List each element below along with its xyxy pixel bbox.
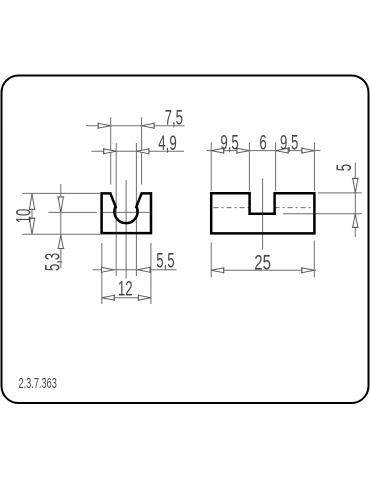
right view: hidden center line left segment: [214, 207, 250, 209]
left view: extension line 4.9 right: [135, 143, 137, 276]
svg-text:2.3.7.363: 2.3.7.363: [19, 375, 57, 392]
svg-text:6: 6: [259, 130, 266, 154]
svg-text:9,5: 9,5: [280, 130, 299, 154]
arrowhead 12 right (points right): [138, 295, 151, 300]
dimension line 10 (vertical): [31, 193, 33, 234]
arrowhead 10 top (points up): [29, 193, 34, 209]
arrowhead 5 top (points down): [353, 178, 358, 193]
arrowhead 4.9 right (points left): [136, 149, 149, 154]
left view part outline: [102, 193, 151, 233]
right view: hidden center line right segment: [275, 207, 314, 209]
right view: extension line 25 right: [313, 241, 315, 278]
dimension line 5.3 (vertical): [60, 184, 62, 268]
dimension line 5.5: [93, 269, 177, 271]
arrowhead 10 bottom (points down): [29, 218, 34, 234]
arrowhead 7.5 right (points left): [142, 123, 155, 128]
left view: horizontal centerline left segment: [48, 211, 97, 213]
dimension line 25: [211, 269, 316, 271]
arrowhead 5.5 left (points right): [102, 267, 115, 272]
right view: extension line notch right: [275, 142, 277, 190]
arrowhead 4.9 left (points right): [104, 149, 117, 154]
arrowhead 25 right (points right): [302, 268, 315, 273]
right view: extension line notch left: [248, 142, 250, 190]
svg-text:12: 12: [118, 276, 133, 300]
arrowhead 9.5L right (points right): [237, 148, 250, 153]
right view: extension line top left edge: [210, 142, 212, 190]
arrowhead 5.5 right (points left): [138, 267, 151, 272]
right view part outline: [211, 193, 314, 233]
arrowhead 5.3 bottom (points up): [58, 235, 63, 248]
right view: extension of notch bottom to right: [283, 213, 362, 215]
drawing sheet border: [2, 76, 369, 404]
left view: vertical centerline: [125, 180, 127, 279]
svg-text:5,5: 5,5: [156, 248, 175, 272]
svg-text:10: 10: [11, 209, 35, 224]
arrowhead 9.5R right (points right): [302, 148, 315, 153]
arrowhead 7.5 left (points right): [98, 123, 111, 128]
left view: extension line 12 right: [150, 243, 152, 304]
arrowhead 5 bottom (points up): [353, 214, 358, 228]
right view: vertical centerline: [262, 178, 264, 249]
left view: horizontal centerline through notch: [103, 211, 149, 213]
dimension line 12: [102, 297, 151, 299]
arrowhead 12 left (points left): [102, 295, 115, 300]
dimension line 7.5: [86, 125, 185, 127]
right view: extension line right edge: [313, 142, 315, 190]
arrowhead 5.3 top (points down): [58, 197, 63, 213]
left view: bottom edge extension to left: [22, 233, 100, 235]
left view: extension line 7.5 right: [141, 117, 143, 184]
dimension line 5 (vertical): [354, 163, 356, 238]
left view: top edge extension to left: [22, 192, 100, 194]
left view: extension line 4.9 left: [115, 143, 117, 276]
arrowhead 9.5L left (points left): [211, 148, 224, 153]
arrowhead 25 left (points left): [211, 268, 224, 273]
svg-text:4,9: 4,9: [158, 131, 176, 155]
dimension line 9.5 / 6 / 9.5: [207, 150, 321, 152]
arrowhead 9.5R left (points left): [276, 148, 289, 153]
svg-text:5,3: 5,3: [40, 253, 64, 271]
svg-text:5: 5: [332, 164, 356, 171]
svg-text:9,5: 9,5: [220, 130, 239, 154]
svg-text:7,5: 7,5: [165, 105, 184, 129]
svg-text:25: 25: [254, 250, 271, 274]
dimension line 4.9: [92, 150, 185, 152]
right view: extension line 25 left: [210, 242, 212, 277]
left view: extension line 12 left: [101, 243, 103, 304]
left view: extension line 7.5 left: [110, 117, 112, 184]
right view: extension of top edge to right: [318, 192, 362, 194]
